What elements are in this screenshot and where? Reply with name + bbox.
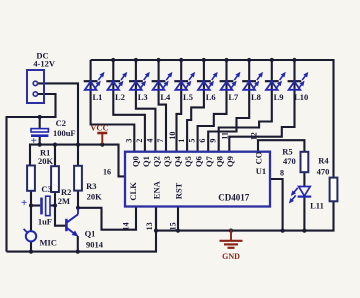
wire C2 bottom lead	[39, 136, 41, 144]
wire R2 bottom lead	[54, 192, 56, 206]
LED L1 arrows	[95, 73, 104, 89]
capacitor C2	[31, 129, 49, 147]
node lower rail junctions	[29, 250, 33, 254]
LED L11 arrows	[290, 188, 298, 203]
svg-text:U1: U1	[256, 166, 266, 176]
svg-text:R3: R3	[86, 181, 96, 191]
svg-text:12: 12	[249, 132, 258, 140]
svg-text:4-12V: 4-12V	[33, 59, 56, 69]
svg-text:+: +	[31, 135, 37, 147]
node base node junction	[53, 203, 57, 207]
svg-text:Q1: Q1	[141, 156, 151, 167]
LED L4	[152, 80, 166, 90]
LED L2	[106, 80, 120, 90]
wire R1 bottom to MIC node	[30, 191, 32, 232]
svg-text:L9: L9	[274, 92, 284, 102]
svg-text:L7: L7	[228, 92, 239, 102]
LED L8	[242, 80, 256, 90]
wire main ground rail to R4 bottom	[156, 201, 334, 231]
LED L6 arrows	[208, 73, 217, 89]
LED L2 arrows	[117, 73, 126, 89]
wire base node down and right to Q1 base	[55, 206, 66, 226]
svg-text:1: 1	[177, 139, 186, 143]
svg-text:L4: L4	[160, 92, 171, 102]
wire bottom-left ground rail to pin13 junction	[7, 206, 157, 251]
DC jack J1	[27, 70, 44, 103]
LED L11	[298, 187, 312, 197]
svg-text:CLK: CLK	[128, 182, 138, 201]
svg-text:C3: C3	[41, 184, 51, 194]
svg-text:L6: L6	[206, 92, 216, 102]
wire Q1 emitter to lower rail	[77, 236, 79, 252]
svg-text:20K: 20K	[38, 156, 54, 166]
node ground rail junctions	[154, 229, 158, 233]
svg-text:Q5: Q5	[183, 156, 193, 167]
svg-text:9: 9	[209, 139, 218, 143]
svg-text:CO: CO	[254, 151, 264, 164]
svg-text:13: 13	[145, 222, 154, 230]
resistor R5	[301, 152, 309, 172]
svg-text:2M: 2M	[58, 196, 70, 206]
svg-text:L10: L10	[294, 92, 308, 102]
svg-text:L3: L3	[138, 92, 148, 102]
svg-text:7: 7	[156, 139, 165, 143]
LED L8 arrows	[253, 73, 262, 89]
LED L7	[220, 80, 234, 90]
svg-text:Q7: Q7	[204, 155, 214, 167]
svg-text:5: 5	[188, 139, 197, 143]
svg-text:Q1: Q1	[85, 229, 96, 239]
svg-text:14: 14	[122, 222, 131, 230]
wire collector node to CLK pin 14 loop	[78, 206, 136, 230]
wire C3 right plate to base node	[50, 204, 55, 206]
svg-text:R4: R4	[318, 156, 329, 166]
transistor Q1	[66, 209, 78, 232]
svg-text:CD4017: CD4017	[218, 193, 249, 203]
wire VCC rail / pin16 feed	[30, 145, 125, 177]
svg-text:Q8: Q8	[214, 156, 224, 167]
LED L10 arrows	[298, 73, 307, 89]
svg-text:Q3: Q3	[162, 156, 172, 167]
wire RST pin 15 stub	[177, 206, 179, 230]
wire LED L2 drop and routing to IC pin 2	[113, 60, 145, 152]
svg-text:L1: L1	[92, 92, 102, 102]
node top rail LED junctions	[111, 58, 115, 62]
wire LED L10 drop and routing to IC pin 11	[229, 60, 294, 152]
resistor R1	[27, 166, 35, 191]
wire pin 8 VSS to ground rail	[270, 179, 283, 231]
svg-text:1uF: 1uF	[38, 217, 52, 227]
svg-text:Q9: Q9	[225, 156, 235, 167]
wire LED L3 drop and routing to IC pin 4	[136, 60, 156, 152]
wire LED L8 drop and routing to IC pin 6	[208, 60, 249, 152]
node C2 top junction	[38, 115, 42, 119]
svg-text:9014: 9014	[86, 239, 104, 249]
svg-text:470: 470	[317, 166, 330, 176]
LED L1	[84, 80, 98, 90]
microphone MIC	[24, 229, 37, 242]
node R1/MIC/C3 junction	[29, 203, 33, 207]
svg-text:100uF: 100uF	[53, 128, 76, 138]
svg-text:L5: L5	[183, 92, 193, 102]
resistor R3	[74, 166, 82, 191]
op-amp U1 CD4017 body	[125, 152, 270, 207]
wire R2 top lead	[54, 145, 56, 167]
LED L5 arrows	[185, 73, 194, 89]
LED L9	[265, 80, 279, 90]
LED L5	[174, 80, 188, 90]
LED L3	[129, 80, 143, 90]
wire top rail from L1 across to right side down to R4	[91, 60, 334, 178]
svg-text:2: 2	[135, 139, 144, 143]
wire C2 top lead	[39, 116, 41, 129]
svg-text:8: 8	[280, 168, 284, 177]
wire DC+ to VCC rail	[38, 83, 79, 143]
node collector junction	[76, 206, 80, 210]
wire R5 bottom to L11	[303, 172, 305, 186]
wire LED L9 drop and routing to IC pin 9	[219, 60, 272, 152]
svg-text:470: 470	[283, 156, 296, 166]
svg-text:C2: C2	[56, 118, 66, 128]
svg-text:ENA: ENA	[152, 180, 162, 199]
resistor R4	[330, 178, 338, 202]
svg-text:Q0: Q0	[130, 156, 140, 167]
wire LED L6 drop and routing to IC pin 1	[187, 60, 204, 152]
resistor R2	[51, 166, 59, 192]
wire R3 bottom to collector node	[77, 191, 79, 208]
svg-text:L2: L2	[115, 92, 125, 102]
wire LED L7 drop and routing to IC pin 5	[198, 60, 227, 152]
LED L4 arrows	[163, 73, 172, 89]
power VCC symbol	[97, 133, 107, 144]
svg-text:10: 10	[168, 132, 177, 140]
svg-text:R5: R5	[282, 146, 292, 156]
node VCC rail junctions	[38, 143, 42, 147]
svg-text:+: +	[21, 197, 27, 209]
wire LED L1 drop and routing to IC pin 3	[91, 60, 135, 152]
wire ENA pin 13 stub	[155, 206, 157, 230]
svg-text:15: 15	[169, 222, 178, 230]
svg-text:20K: 20K	[87, 191, 103, 201]
wire LED L5 drop and routing to IC pin 10	[177, 60, 182, 152]
svg-text:L8: L8	[251, 92, 261, 102]
svg-text:16: 16	[103, 167, 111, 176]
svg-text:Q6: Q6	[193, 156, 203, 167]
svg-text:MIC: MIC	[39, 237, 56, 247]
LED L9 arrows	[276, 73, 285, 89]
svg-text:RST: RST	[174, 182, 184, 199]
ground GND symbol	[220, 230, 243, 248]
LED L3 arrows	[140, 73, 149, 89]
svg-text:L11: L11	[310, 201, 324, 211]
LED L7 arrows	[231, 73, 240, 89]
transistor Q1 emitter arrow	[66, 228, 77, 236]
svg-text:4: 4	[146, 139, 155, 143]
svg-text:VCC: VCC	[90, 123, 108, 133]
wire MIC bottom lead	[30, 242, 32, 252]
wire CO pin 12 to R5 top	[258, 140, 304, 152]
wire L11 bottom to ground rail	[303, 197, 305, 231]
svg-text:6: 6	[198, 139, 207, 143]
capacitor C3	[21, 196, 50, 215]
svg-text:11: 11	[221, 132, 230, 140]
svg-text:Q4: Q4	[172, 155, 182, 167]
svg-text:Q2: Q2	[151, 156, 161, 167]
wire LED L4 drop and routing to IC pin 7	[159, 60, 166, 152]
svg-text:3: 3	[125, 139, 134, 143]
LED L6	[197, 80, 211, 90]
LED L10	[288, 80, 302, 90]
svg-text:GND: GND	[222, 252, 240, 261]
wire node to C3 left plate	[31, 204, 40, 206]
wire R3 top lead	[77, 145, 79, 166]
wire DC- left down to bottom-left ground rail	[7, 94, 56, 252]
